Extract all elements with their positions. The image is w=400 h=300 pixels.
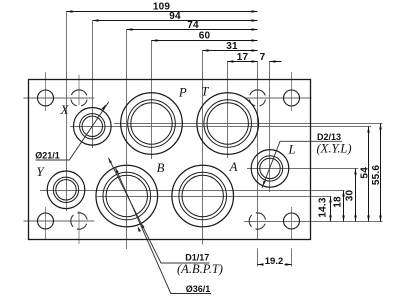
dim 7 tail [270, 61, 282, 63]
extension line 94 / X column [92, 21, 94, 149]
svg-text:19.2: 19.2 [265, 256, 284, 267]
hidden hole top-right datum [249, 90, 265, 106]
dim 74 [127, 29, 258, 31]
extension line 31 / A column [202, 51, 204, 245]
svg-text:60: 60 [199, 31, 211, 42]
hidden hole bottom-right datum [249, 213, 265, 229]
extension line 109 / Y column [66, 11, 68, 211]
centerline L row + extension 30 [247, 168, 358, 170]
dim 31 [203, 50, 258, 52]
svg-text:L: L [287, 143, 295, 157]
svg-text:D1/17: D1/17 [185, 252, 209, 262]
svg-text:30: 30 [345, 190, 356, 202]
port X [74, 108, 112, 146]
dim 30 [355, 169, 357, 222]
leader O36/1 to B [116, 168, 212, 294]
svg-text:A: A [229, 160, 238, 174]
extension line datum below plate [257, 249, 259, 267]
svg-text:17: 17 [237, 52, 249, 63]
bolt hole top-right [284, 90, 300, 106]
centerline bolt row top-left [24, 97, 95, 99]
port A [172, 165, 234, 227]
svg-text:14.3: 14.3 [318, 197, 329, 218]
svg-text:X: X [60, 103, 70, 117]
extension line 74 / B column [126, 30, 128, 250]
hidden hole bottom-left [71, 213, 87, 229]
leader O21/1 to X [36, 102, 109, 160]
centerline top-left bolt vertical [45, 72, 47, 111]
centerline Y row + extension 18 [40, 190, 345, 192]
svg-text:P: P [178, 86, 187, 100]
port Y [47, 171, 85, 209]
extension line right bolt below plate [291, 249, 293, 267]
extension line 17 / T column [227, 61, 229, 158]
svg-text:55.6: 55.6 [371, 165, 382, 186]
svg-text:7: 7 [260, 52, 266, 63]
svg-text:D2/13: D2/13 [317, 132, 341, 142]
svg-text:(X.Y.L): (X.Y.L) [317, 142, 352, 156]
dim 17 [228, 61, 258, 63]
dimension lines [67, 12, 381, 265]
port T [197, 93, 259, 155]
centerline bottom-left bolt vertical [45, 207, 47, 240]
hidden holes dashed [71, 90, 266, 229]
leader D1/17 to B [109, 158, 210, 263]
centerline top-right bolt vertical [291, 72, 293, 111]
svg-text:T: T [201, 85, 209, 99]
centerline bottom-left hidden hole vertical [78, 211, 80, 244]
arrow D1/17 leader lower [141, 223, 145, 229]
svg-text:94: 94 [169, 11, 181, 22]
svg-text:109: 109 [153, 2, 171, 13]
centerline X hole + extension 54 [70, 126, 371, 128]
svg-text:(A.B.P.T): (A.B.P.T) [177, 262, 223, 276]
port P [121, 93, 183, 155]
centerline P T row + extension 55.6 [114, 123, 383, 125]
centerline bolt row bottom-left [24, 220, 95, 222]
svg-text:B: B [157, 161, 165, 175]
extension line datum column [257, 61, 259, 240]
centerline bolt row top-right [246, 97, 312, 99]
svg-text:Ø21/1: Ø21/1 [35, 150, 60, 160]
svg-text:18: 18 [333, 196, 344, 208]
svg-text:74: 74 [187, 20, 199, 31]
dim 94 [93, 20, 258, 22]
bolt hole bottom-right [284, 213, 300, 229]
bolt hole bottom-left [38, 213, 54, 229]
bolt holes [38, 90, 300, 229]
ports [47, 93, 289, 227]
port B [96, 165, 158, 227]
dim 109 [67, 11, 258, 13]
leader D2/13 to L [262, 141, 342, 188]
centerline bottom-right bolt vertical [291, 207, 293, 240]
centerline bolt row bottom-right + dim base [244, 221, 383, 223]
svg-text:31: 31 [226, 41, 238, 52]
extension line 7 / L column [269, 61, 271, 192]
plate outline [29, 80, 311, 240]
dim 18 [343, 191, 345, 222]
svg-text:54: 54 [360, 167, 371, 179]
arrow D2/13 leader [262, 181, 266, 187]
dim 54 [368, 127, 370, 222]
extension line 60 / P column [151, 40, 153, 159]
centerline top-left hidden hole vertical [78, 75, 80, 106]
port L [251, 150, 289, 188]
centerline A B row + extension 14.3 [97, 196, 331, 198]
dim 19.2 [258, 264, 264, 266]
arrow O36 leader lower [138, 226, 142, 232]
dim 55.6 [380, 124, 382, 222]
dim 14.3 [330, 197, 332, 222]
thin gray centre lines [46, 72, 292, 244]
leader lines [36, 102, 342, 294]
bolt hole top-left [38, 90, 54, 106]
arrow D1/17 leader upper [108, 157, 112, 163]
svg-text:Ø36/1: Ø36/1 [186, 284, 211, 294]
dim 60 [152, 40, 258, 42]
hidden hole top-left [71, 90, 87, 106]
arrow O36 leader upper [115, 167, 119, 173]
arrow X leader [102, 104, 106, 110]
